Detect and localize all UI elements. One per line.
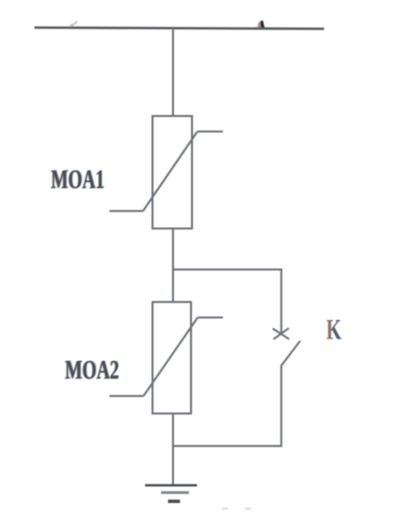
switch K contact cross: [273, 328, 290, 339]
wire: branch to switch (horizontal): [172, 269, 282, 271]
label MOA2: [64, 355, 119, 385]
varistor MOA2: [110, 302, 224, 414]
wire: switch branch vertical upper: [280, 269, 282, 336]
label MOA1: [50, 165, 105, 195]
stray pen mark on bus: [70, 21, 79, 27]
ground: [145, 485, 197, 501]
varistor MOA1: [110, 116, 224, 229]
stray dark mark on bus: [257, 21, 264, 28]
faint specks bottom: [222, 508, 251, 511]
wire: MOA2 bottom to ground: [172, 414, 174, 486]
svg-text:MOA1: MOA1: [51, 165, 105, 194]
svg-text:MOA2: MOA2: [65, 356, 119, 385]
wire: bus to MOA1 top: [172, 28, 174, 116]
wire: MOA1 bottom to MOA2 top: [172, 229, 174, 303]
switch K blade: [282, 341, 300, 365]
wire: bottom branch (horizontal): [172, 445, 281, 447]
svg-text:K: K: [326, 315, 342, 346]
bus bar: [35, 28, 325, 29]
wire: switch branch vertical lower: [280, 365, 282, 448]
